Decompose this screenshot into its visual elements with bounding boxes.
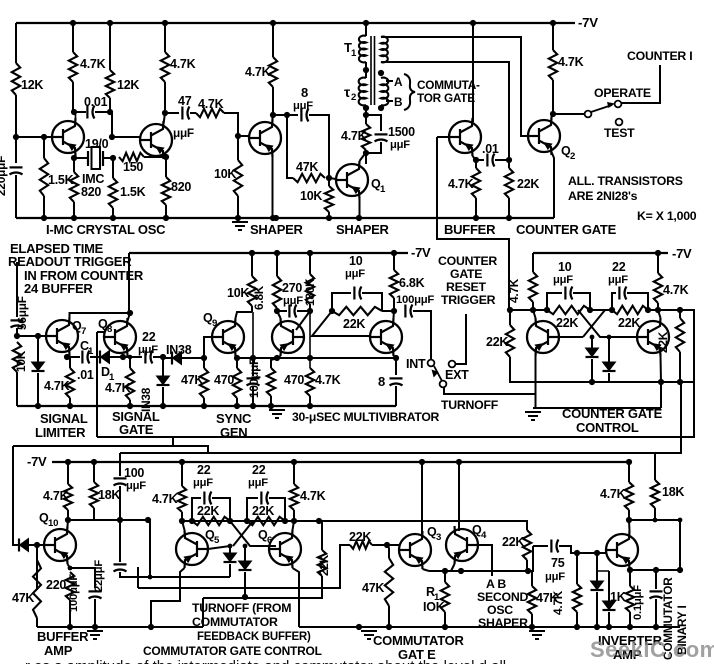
wire [37, 336, 39, 362]
wire [236, 312, 253, 318]
wire [119, 520, 121, 562]
wire [270, 396, 272, 406]
node [148, 575, 153, 580]
svg-text:μμF: μμF [608, 274, 628, 286]
node osc2 base [109, 134, 115, 140]
wire cross coupling comm 2 [230, 521, 276, 546]
wire [70, 356, 80, 358]
node [117, 517, 123, 523]
resistor R1 10K [441, 582, 449, 612]
svg-text:56μμF: 56μμF [15, 296, 29, 330]
resistor 4.7K buffer [472, 168, 480, 198]
wire [629, 569, 632, 570]
node [128, 355, 133, 360]
transistor Q5 [176, 530, 208, 568]
node [587, 307, 593, 313]
svg-text:0.1μμF: 0.1μμF [632, 585, 644, 620]
svg-text:12K: 12K [117, 78, 139, 92]
resistor 4.7K coupling [196, 109, 224, 117]
svg-text:I-MC CRYSTAL OSC: I-MC CRYSTAL OSC [46, 222, 166, 237]
resistor 1.5K B [109, 178, 117, 208]
wire [293, 462, 295, 484]
wire [657, 303, 659, 310]
wire [251, 306, 253, 312]
svg-text:SHAPER: SHAPER [250, 222, 304, 237]
wire [628, 520, 631, 531]
svg-text:-7V: -7V [672, 246, 692, 261]
node [609, 307, 615, 313]
wire [237, 196, 239, 218]
wire [366, 115, 381, 131]
wire [608, 373, 610, 382]
wire [138, 545, 350, 588]
junction [110, 215, 116, 221]
wire [312, 311, 371, 336]
wire to Q7 Q8 collectors [128, 253, 130, 313]
resistor 22K cgc out [676, 318, 684, 352]
resistor 18K inverter [651, 480, 659, 508]
ground comm gate [361, 631, 377, 639]
wire [535, 356, 537, 408]
svg-text:TEST: TEST [604, 126, 635, 140]
wire [70, 313, 131, 317]
wire [393, 253, 395, 270]
wire [277, 311, 281, 318]
wire [123, 356, 142, 358]
node Q1 base [326, 175, 332, 181]
wire loop left [287, 115, 293, 178]
wire [236, 358, 238, 368]
svg-text:TURNOFF: TURNOFF [441, 398, 499, 412]
transistor cgc left [527, 318, 559, 356]
svg-text:μμF: μμF [193, 477, 213, 489]
svg-text:4.7K: 4.7K [245, 65, 271, 79]
junction [268, 403, 274, 409]
capacitor 100uuF sync [247, 377, 260, 379]
wire left column top [15, 23, 17, 63]
wire [74, 157, 88, 159]
svg-text:COUNTER: COUNTER [438, 254, 497, 268]
wire [181, 512, 183, 521]
wire [93, 462, 95, 482]
wire [628, 462, 630, 482]
wire [36, 618, 38, 627]
svg-text:10: 10 [349, 254, 363, 268]
svg-text:4.7K: 4.7K [600, 487, 626, 501]
svg-text:COUNTER GATE: COUNTER GATE [516, 222, 617, 237]
svg-text:COUNTER I: COUNTER I [627, 49, 692, 63]
transformer T2 primary [359, 78, 366, 106]
svg-text:4.7K: 4.7K [315, 373, 341, 387]
resistor 4.7K Q1 collector [362, 124, 370, 150]
node mult L base [307, 308, 313, 314]
wire [591, 337, 593, 348]
svg-text:τ: τ [344, 84, 351, 100]
wire [597, 570, 609, 572]
transistor Q2 [528, 117, 560, 155]
resistor 22K cgc left [547, 306, 590, 314]
junction [35, 403, 41, 409]
wire T1 sec bottom to buffer out [381, 62, 509, 160]
wire [528, 546, 533, 571]
wire [252, 386, 254, 406]
switch contact EXT [449, 361, 456, 368]
wire [508, 198, 510, 218]
svg-text:B: B [394, 95, 402, 109]
node [574, 550, 580, 556]
wire [251, 253, 253, 276]
svg-text:10: 10 [48, 518, 58, 529]
svg-text:μμF: μμF [248, 477, 268, 489]
node [655, 307, 661, 313]
wire [276, 308, 278, 311]
wire [69, 398, 71, 406]
svg-text:12K: 12K [21, 78, 43, 92]
junction [653, 624, 659, 630]
wire cgc out to commutator [680, 382, 682, 453]
wire [451, 564, 455, 571]
node [145, 517, 151, 523]
svg-text:22K: 22K [502, 535, 524, 549]
wire [182, 357, 204, 359]
wire [164, 113, 166, 124]
svg-text:10K: 10K [300, 189, 322, 203]
wire Q3 collector [421, 462, 423, 536]
brace commutator gate [404, 74, 415, 110]
svg-text:TRIGGER: TRIGGER [441, 293, 496, 307]
wire T1 sec top to Q2 base [381, 37, 528, 136]
svg-text:19/0: 19/0 [85, 137, 109, 151]
junction [235, 215, 241, 221]
wire [328, 166, 330, 178]
svg-text:4.7K: 4.7K [43, 489, 69, 503]
svg-text:22K: 22K [197, 504, 219, 518]
transistor mult left [272, 318, 304, 356]
svg-text:OPERATE: OPERATE [594, 86, 651, 100]
wire [15, 175, 17, 218]
node [356, 215, 362, 221]
node [162, 20, 168, 26]
wire [119, 486, 121, 520]
wire [596, 553, 598, 581]
node [228, 544, 233, 549]
wire base shaper1 [238, 135, 249, 137]
svg-text:LIMITER: LIMITER [35, 425, 86, 440]
wire [429, 570, 528, 572]
svg-text:22: 22 [612, 260, 626, 274]
resistor 22K buffer [505, 168, 513, 198]
wire [229, 564, 231, 577]
wire [15, 95, 17, 137]
svg-text:22μμF: 22μμF [93, 560, 105, 592]
wire [203, 398, 205, 406]
wire to counter 1 [621, 65, 660, 103]
svg-text:SECOND: SECOND [477, 590, 528, 604]
wire [478, 545, 492, 576]
svg-text:2: 2 [570, 151, 575, 162]
resistor 820 A [70, 172, 78, 202]
wire [237, 136, 239, 160]
junction [273, 215, 279, 221]
svg-text:SeekIC.com: SeekIC.com [590, 637, 714, 662]
svg-text:8: 8 [378, 374, 385, 389]
svg-text:22K: 22K [517, 177, 539, 191]
node diode cgc 1 [590, 335, 595, 340]
wire Q9 base [204, 337, 212, 358]
svg-text:6.8K: 6.8K [399, 276, 425, 290]
wire [386, 80, 393, 82]
wire [236, 398, 238, 406]
wire [109, 23, 111, 70]
node [627, 567, 633, 573]
node mult L collector [274, 308, 280, 314]
node 8uuF loop [284, 112, 290, 118]
wire [129, 400, 131, 406]
svg-text:BUFFER: BUFFER [444, 222, 496, 237]
svg-text:4.7K: 4.7K [80, 57, 106, 71]
svg-text:47K: 47K [181, 373, 203, 387]
node [91, 459, 97, 465]
node Q7 Q8 collectors [127, 310, 133, 316]
node [678, 518, 683, 523]
wire [508, 160, 510, 168]
transistor Q3 [399, 531, 431, 569]
transformer T2 secondary [381, 78, 388, 106]
wire [252, 312, 254, 358]
junction [67, 624, 73, 630]
node IN38 [160, 354, 166, 360]
svg-text:47K: 47K [536, 591, 558, 605]
wire [203, 358, 205, 368]
node Q8 emitter [120, 354, 126, 360]
wire EXT stub [455, 314, 466, 364]
wire [272, 87, 274, 115]
wire [162, 357, 164, 376]
node Q10 emitter [68, 566, 73, 571]
wire [365, 23, 367, 36]
wire [70, 568, 95, 588]
svg-text:820: 820 [171, 180, 191, 194]
wire [532, 253, 534, 272]
wire [309, 396, 311, 406]
svg-text:4.7K: 4.7K [558, 55, 584, 69]
wire [655, 599, 657, 627]
wire [608, 612, 610, 627]
wire [654, 508, 656, 520]
svg-text:47K: 47K [12, 591, 34, 605]
wire [16, 22, 575, 24]
wire [277, 310, 287, 312]
node osc collector [71, 109, 77, 115]
junction [529, 624, 535, 630]
wire [69, 600, 71, 627]
wire [67, 462, 69, 484]
node Q10 collector [65, 517, 71, 523]
resistor 4.7K cgc right [654, 273, 662, 303]
ground buffer amp [87, 631, 103, 639]
node [291, 459, 297, 465]
node 47uuF tap [162, 110, 168, 116]
wire [247, 498, 258, 521]
wire [296, 311, 310, 330]
wire [110, 356, 123, 358]
wire to INT switch [413, 311, 431, 359]
wire [17, 544, 19, 546]
node [179, 459, 185, 465]
wire [612, 293, 616, 310]
resistor 4.7K Q7 [66, 368, 74, 398]
svg-text:3: 3 [436, 532, 441, 543]
transformer T1 secondary [381, 37, 388, 63]
wire [73, 202, 75, 218]
wire [271, 358, 277, 368]
node [291, 518, 297, 524]
wire [43, 196, 45, 218]
resistor 22K reset [506, 325, 514, 357]
wire emitter B [165, 157, 167, 177]
svg-text:CONTROL: CONTROL [576, 420, 639, 435]
wire [655, 570, 657, 589]
node [626, 459, 632, 465]
svg-text:22: 22 [197, 463, 211, 477]
wire collector A [75, 112, 77, 121]
switch pole contact [585, 111, 592, 118]
wire [309, 304, 311, 311]
switch pole turnoff [440, 381, 447, 388]
transistor Q7 [46, 317, 78, 355]
capacitor 1500uuF [375, 133, 388, 135]
svg-text:.01: .01 [77, 368, 94, 382]
node [456, 459, 462, 465]
node [525, 568, 531, 574]
wire [495, 159, 509, 161]
svg-text:μμF: μμF [138, 344, 158, 356]
resistor 4.7K mult [306, 368, 314, 396]
resistor 470 mult [267, 368, 275, 396]
wire [591, 105, 612, 112]
resistor 10K shaper1 [234, 160, 242, 196]
wire base Q1 [329, 178, 336, 179]
node [307, 355, 313, 361]
wire [386, 100, 393, 102]
junction [41, 215, 47, 221]
resistor 22K q3 [350, 541, 372, 549]
resistor 18K buffer amp [90, 482, 98, 508]
svg-text:75: 75 [551, 556, 565, 570]
svg-text:18K: 18K [662, 485, 684, 499]
wire [253, 357, 277, 359]
svg-text:10K: 10K [14, 350, 28, 372]
node [274, 250, 280, 256]
node Q9 base [201, 355, 207, 361]
svg-text:4.7K: 4.7K [152, 492, 178, 506]
wire [360, 155, 365, 161]
svg-text:COMMUTA-: COMMUTA- [417, 78, 480, 92]
wire [181, 462, 183, 486]
node [270, 20, 276, 26]
transformer core [371, 36, 375, 105]
svg-text:TURNOFF (FROM: TURNOFF (FROM [192, 601, 291, 615]
junction [160, 403, 166, 409]
wire [596, 592, 598, 627]
wire [72, 82, 74, 112]
wire [475, 160, 477, 168]
wire [660, 382, 662, 408]
wire to shaper base [224, 113, 238, 136]
wire [29, 544, 37, 546]
wire [476, 159, 484, 161]
junction [92, 624, 98, 630]
wire [657, 253, 659, 273]
wire [423, 569, 430, 571]
svg-text:4.7K: 4.7K [341, 129, 367, 143]
wire [128, 313, 131, 321]
wire [388, 606, 390, 627]
junction [606, 624, 612, 630]
svg-text:-7V: -7V [27, 454, 47, 469]
wire [94, 599, 96, 627]
svg-text:10K: 10K [214, 167, 236, 181]
wire [608, 337, 610, 362]
wire [679, 310, 681, 318]
junction [250, 403, 256, 409]
wire [531, 571, 533, 586]
ground top band [232, 222, 248, 230]
wire buffer base drop [436, 137, 438, 218]
wire [532, 302, 534, 310]
wire [293, 568, 300, 627]
capacitor 270uuF [288, 305, 290, 318]
svg-text:SYNC: SYNC [216, 411, 252, 426]
node [70, 20, 76, 26]
svg-text:6.8K: 6.8K [252, 285, 266, 310]
svg-text:COMMUTATOR: COMMUTATOR [373, 633, 465, 648]
wire [163, 357, 172, 359]
node diode tap [35, 333, 41, 339]
wire [90, 356, 98, 358]
wire [93, 508, 95, 520]
node [270, 215, 276, 221]
svg-text:SHAPER: SHAPER [336, 222, 390, 237]
wire buffer base [437, 136, 449, 138]
resistor 12K input [12, 63, 20, 95]
wire [366, 142, 381, 153]
wire signal gate box drop [172, 437, 174, 446]
wire [293, 510, 295, 521]
wire [608, 571, 610, 601]
wire [365, 105, 367, 115]
wire [119, 453, 121, 476]
wire [137, 567, 139, 588]
resistor 4.7K comm L [178, 486, 186, 512]
wire [576, 612, 578, 627]
svg-text:4.7K: 4.7K [448, 177, 474, 191]
resistor 22K comm out [318, 550, 326, 576]
node reset in [507, 307, 513, 313]
wire [127, 355, 129, 357]
capacitor 100uuF out [89, 590, 102, 592]
node [470, 20, 476, 26]
wire 18K drop [654, 453, 656, 480]
wire [13, 446, 208, 453]
wire [269, 498, 285, 521]
node [655, 250, 661, 256]
node [645, 307, 651, 313]
wire [72, 23, 74, 52]
node [391, 308, 397, 314]
wire [473, 156, 477, 160]
svg-text:COMMUTATOR GATE CONTROL: COMMUTATOR GATE CONTROL [143, 644, 322, 658]
